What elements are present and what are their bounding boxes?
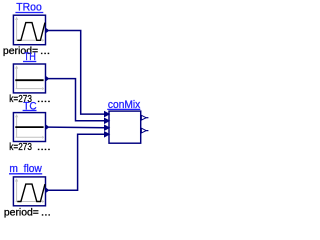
svg-text:...: ... — [40, 46, 50, 57]
wire m_flow.y to conMix input 4 — [49, 134, 107, 190]
TC output port — [46, 125, 49, 129]
label TC — [23, 100, 37, 112]
conMix input port 1 — [104, 111, 109, 117]
value label k=273.... (TC) — [9, 142, 50, 153]
svg-text:....: .... — [37, 142, 51, 153]
conMix input port 4 — [104, 132, 109, 138]
svg-text:...: ... — [41, 207, 51, 218]
source block TC (Constant) — [13, 113, 45, 142]
svg-text:....: .... — [37, 94, 51, 105]
conMix output port 1 — [141, 115, 148, 120]
wire TC.y to conMix input 3 — [49, 126, 107, 129]
value label k=273.... (TH) — [9, 94, 50, 105]
label TH — [23, 51, 36, 63]
TH output port — [46, 77, 49, 81]
svg-text:period=: period= — [4, 207, 39, 218]
conMix input port 3 — [104, 125, 109, 131]
m_flow output port — [46, 188, 49, 192]
label TRoo — [15, 2, 43, 14]
conMix input port 2 — [104, 118, 109, 124]
svg-text:k=273: k=273 — [9, 142, 32, 153]
wire TRoo.y to conMix input 1 — [49, 31, 107, 115]
value label period=... (m_flow) — [4, 207, 51, 218]
wire TH.y to conMix input 2 — [49, 79, 107, 121]
label conMix — [107, 99, 141, 111]
TRoo output port — [46, 28, 49, 32]
source block m_flow (Trapezoid) — [13, 177, 45, 206]
svg-text:m_flow: m_flow — [9, 163, 41, 175]
source block TRoo (Trapezoid) — [13, 15, 45, 45]
source block TH (Constant) — [13, 64, 45, 93]
conMix output port 2 — [141, 128, 148, 133]
label m_flow — [9, 163, 42, 175]
controller block conMix — [109, 111, 141, 143]
value label period=... (TRoo) — [3, 46, 50, 57]
